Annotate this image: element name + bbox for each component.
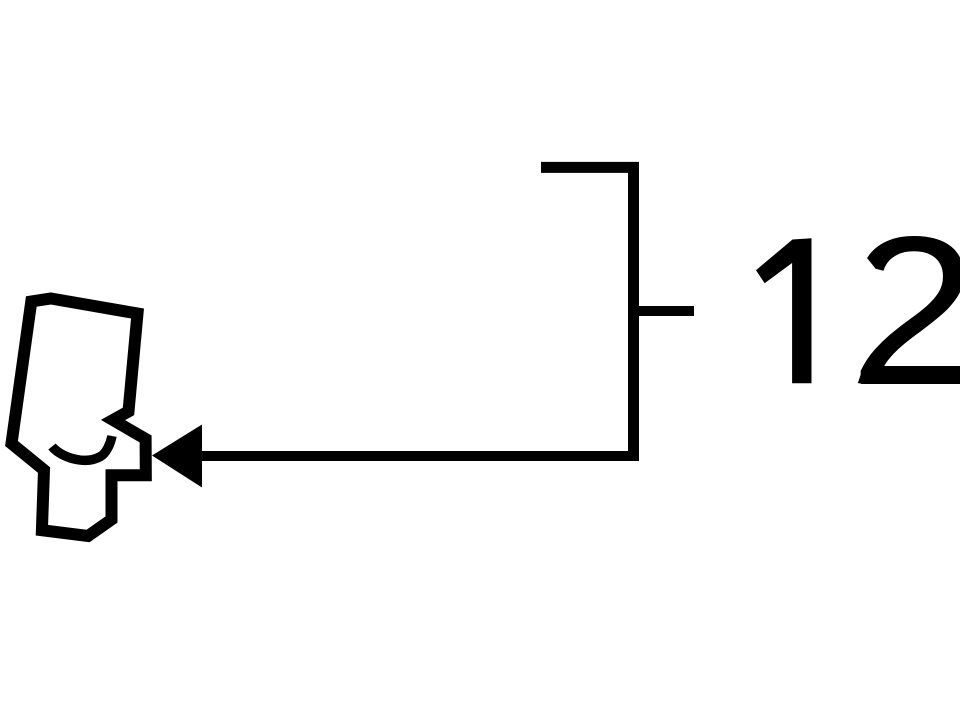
detail arc inside part [52,436,112,460]
digit 2 bottom bar fill [858,366,960,383]
part outline (sensor body) [12,299,146,537]
svg-text:2: 2 [849,193,960,430]
bracket middle tick [639,306,694,316]
leader line (arrow shaft) [200,451,639,461]
label 12 : digit 1 (drawn path, helvetica style no foot serif) [756,238,812,383]
arrowhead [152,425,202,488]
white trim of digit 2 bow terminal [845,246,890,300]
label 12 : digit 2 [849,193,960,430]
bracket: top horizontal + vertical [541,167,634,461]
